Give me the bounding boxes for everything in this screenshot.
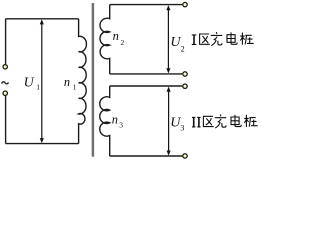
label I (zone 1 roman numeral) xyxy=(192,35,197,45)
hanzi 充 (line2) xyxy=(215,114,226,128)
label U3 xyxy=(170,115,184,132)
wire: primary bottom xyxy=(6,143,79,145)
arrow U3 xyxy=(167,87,171,156)
label U2 xyxy=(170,35,184,53)
wire: primary top xyxy=(6,18,79,20)
winding n1 xyxy=(79,19,87,144)
terminal 1 (sec1 top) xyxy=(183,2,187,6)
svg-text:3: 3 xyxy=(119,121,123,130)
hanzi 电 (line1) xyxy=(227,32,237,44)
winding n3 xyxy=(100,86,110,156)
wire: secondary1 top xyxy=(110,4,183,6)
wire: secondary2 top xyxy=(110,85,183,87)
arrow U1 xyxy=(40,19,44,143)
label n2 xyxy=(113,29,125,47)
arrow U2 xyxy=(166,5,170,73)
svg-text:3: 3 xyxy=(180,124,184,133)
svg-text:1: 1 xyxy=(73,82,77,91)
svg-text:n: n xyxy=(64,75,70,89)
hanzi 桩 (line2) xyxy=(244,115,258,127)
svg-text:2: 2 xyxy=(121,38,125,47)
wire: primary left upper xyxy=(5,19,7,64)
hanzi 桩 (line1) xyxy=(240,33,254,45)
core (iron core bar) xyxy=(92,3,95,157)
winding n2 xyxy=(100,5,110,74)
label n3 xyxy=(112,113,124,130)
hanzi 电 (line2) xyxy=(231,115,241,127)
terminal 4 (sec2 bottom) xyxy=(183,154,187,158)
terminal A (left top) xyxy=(3,65,7,69)
wire: secondary1 bottom xyxy=(110,73,183,75)
label II (zone 2 roman numeral) xyxy=(192,117,201,127)
label U1 xyxy=(24,75,41,91)
svg-text:2: 2 xyxy=(181,44,185,53)
tilde (AC source mark) xyxy=(2,82,9,84)
svg-text:n: n xyxy=(112,113,118,127)
hanzi 充 (line1) xyxy=(211,32,222,46)
terminal 3 (sec2 top) xyxy=(183,84,187,88)
svg-text:n: n xyxy=(113,29,119,43)
hanzi 区 (line1) xyxy=(199,34,210,44)
wire: primary left lower xyxy=(5,96,7,144)
terminal 2 (sec1 bottom) xyxy=(183,72,187,76)
svg-text:1: 1 xyxy=(36,83,40,92)
terminal B (left bottom) xyxy=(3,91,7,95)
svg-text:U: U xyxy=(24,75,35,90)
wire: secondary2 bottom xyxy=(110,155,183,157)
hanzi 区 (line2) xyxy=(203,116,214,126)
label n1 xyxy=(64,75,77,91)
